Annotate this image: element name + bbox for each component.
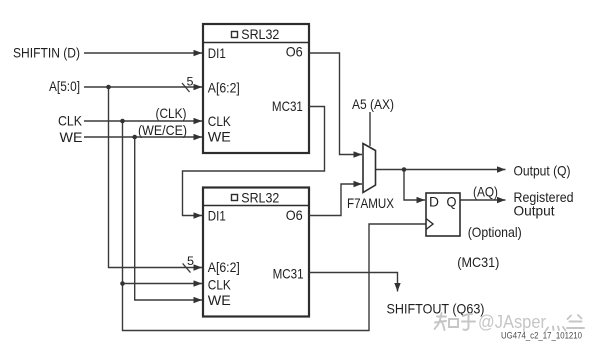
svg-text:(Optional): (Optional) xyxy=(468,224,522,240)
svg-text:CLK: CLK xyxy=(58,113,83,129)
wire A5 select into mux xyxy=(369,112,371,146)
svg-text:O6: O6 xyxy=(286,207,303,223)
junction dot on WE xyxy=(132,135,137,140)
wire FF Q to Registered Output xyxy=(460,199,506,201)
wire mux output to Output (Q) xyxy=(376,169,506,171)
wire CLK branch to U2 CLK xyxy=(123,283,203,285)
svg-text:O6: O6 xyxy=(286,44,303,60)
svg-text:Q: Q xyxy=(447,194,457,210)
wire WE vertical to U2 WE xyxy=(135,137,202,300)
svg-text:DI1: DI1 xyxy=(208,208,226,224)
svg-text:SRL32: SRL32 xyxy=(241,26,279,42)
svg-text:DI1: DI1 xyxy=(208,45,226,61)
SRL32 box U2 (bottom) xyxy=(203,188,309,317)
wire A[5:0] to U1 A[6:2] xyxy=(84,86,202,88)
junction dot on CLK xyxy=(120,119,125,124)
svg-text:5: 5 xyxy=(187,75,194,89)
junction dot CLK to U2 xyxy=(120,281,125,286)
svg-text:MC31: MC31 xyxy=(273,266,304,282)
svg-text:CLK: CLK xyxy=(208,277,232,293)
svg-text:(WE/CE): (WE/CE) xyxy=(138,122,187,138)
wire U2 O6 to mux lower input xyxy=(309,184,362,216)
svg-text:D: D xyxy=(429,194,439,210)
svg-text:A[6:2]: A[6:2] xyxy=(208,80,240,96)
U2 title square xyxy=(232,195,238,201)
svg-text:MC31: MC31 xyxy=(272,98,303,114)
junction dot on A[5:0] xyxy=(106,85,111,90)
wire U2 MC31 to SHIFTOUT xyxy=(309,273,398,292)
wire SHIFTIN to U1 DI1 xyxy=(84,52,202,54)
svg-text:WE: WE xyxy=(208,292,231,308)
svg-text:WE: WE xyxy=(60,129,83,145)
bus slash top xyxy=(182,83,190,92)
svg-text:5: 5 xyxy=(187,254,194,268)
svg-text:Output: Output xyxy=(514,203,555,219)
svg-text:A5 (AX): A5 (AX) xyxy=(352,96,394,112)
bus slash bottom xyxy=(183,263,191,272)
FF clock triangle xyxy=(426,219,433,230)
wire WE to U1 WE xyxy=(84,136,202,138)
wire U1 O6 to mux upper input xyxy=(309,53,362,155)
wire A bus vertical to U2 A[6:2] xyxy=(109,87,203,268)
svg-text:@JAsper: @JAsper xyxy=(478,312,546,332)
svg-text:WE: WE xyxy=(208,128,231,144)
svg-text:(CLK): (CLK) xyxy=(156,105,187,121)
flip-flop FF xyxy=(426,193,460,236)
svg-text:SHIFTIN (D): SHIFTIN (D) xyxy=(13,45,80,61)
wire U1 MC31 to U2 DI1 xyxy=(183,107,325,216)
svg-text:A[5:0]: A[5:0] xyxy=(49,78,80,94)
wire CLK to U1 CLK xyxy=(84,120,202,122)
svg-text:Output (Q): Output (Q) xyxy=(514,163,571,179)
watermark zhihu xyxy=(435,313,476,330)
svg-text:UG474_c2_17_101210: UG474_c2_17_101210 xyxy=(501,331,582,342)
U1 title square xyxy=(232,32,238,38)
svg-text:A[6:2]: A[6:2] xyxy=(208,259,240,275)
svg-text:CLK: CLK xyxy=(208,113,232,129)
svg-text:F7AMUX: F7AMUX xyxy=(347,195,395,211)
svg-text:SRL32: SRL32 xyxy=(241,189,279,205)
F7AMUX mux body xyxy=(363,144,376,193)
svg-text:(AQ): (AQ) xyxy=(473,184,498,200)
junction dot mux output xyxy=(402,167,407,172)
wire branch to FF D input xyxy=(404,170,425,201)
SRL32 box U1 (top) xyxy=(203,24,309,153)
svg-text:(MC31): (MC31) xyxy=(457,254,499,270)
wire CLK vertical trunk xyxy=(123,121,427,331)
